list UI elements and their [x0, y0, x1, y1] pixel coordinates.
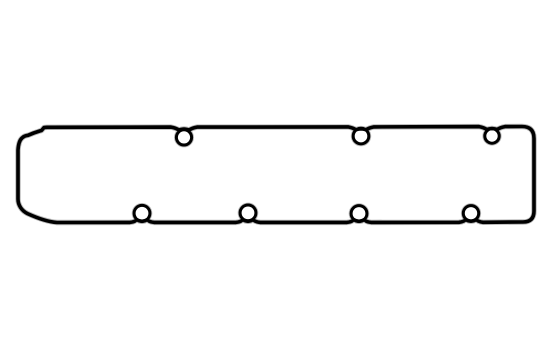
halo of gasket outline: [18, 127, 534, 223]
bolt hole bottom 4: [463, 206, 478, 221]
soft halo under-stroke: [18, 127, 534, 223]
gasket outline: [18, 127, 534, 223]
bolt hole top 3: [485, 129, 499, 143]
halo of bolt hole top 1: [176, 130, 191, 145]
halo of bolt hole top 2: [353, 128, 369, 144]
bolt hole top 1: [176, 130, 191, 145]
bolt hole top 2: [353, 128, 369, 144]
bolt hole bottom 2: [240, 205, 256, 221]
bolt hole bottom 1: [134, 205, 150, 221]
halo of bolt hole bottom 4: [463, 206, 478, 221]
halo of bolt hole bottom 2: [240, 205, 256, 221]
halo of bolt hole bottom 1: [134, 205, 150, 221]
halo of bolt hole bottom 3: [351, 206, 367, 222]
bolt hole bottom 3: [351, 206, 367, 222]
halo of bolt hole top 3: [485, 129, 499, 143]
